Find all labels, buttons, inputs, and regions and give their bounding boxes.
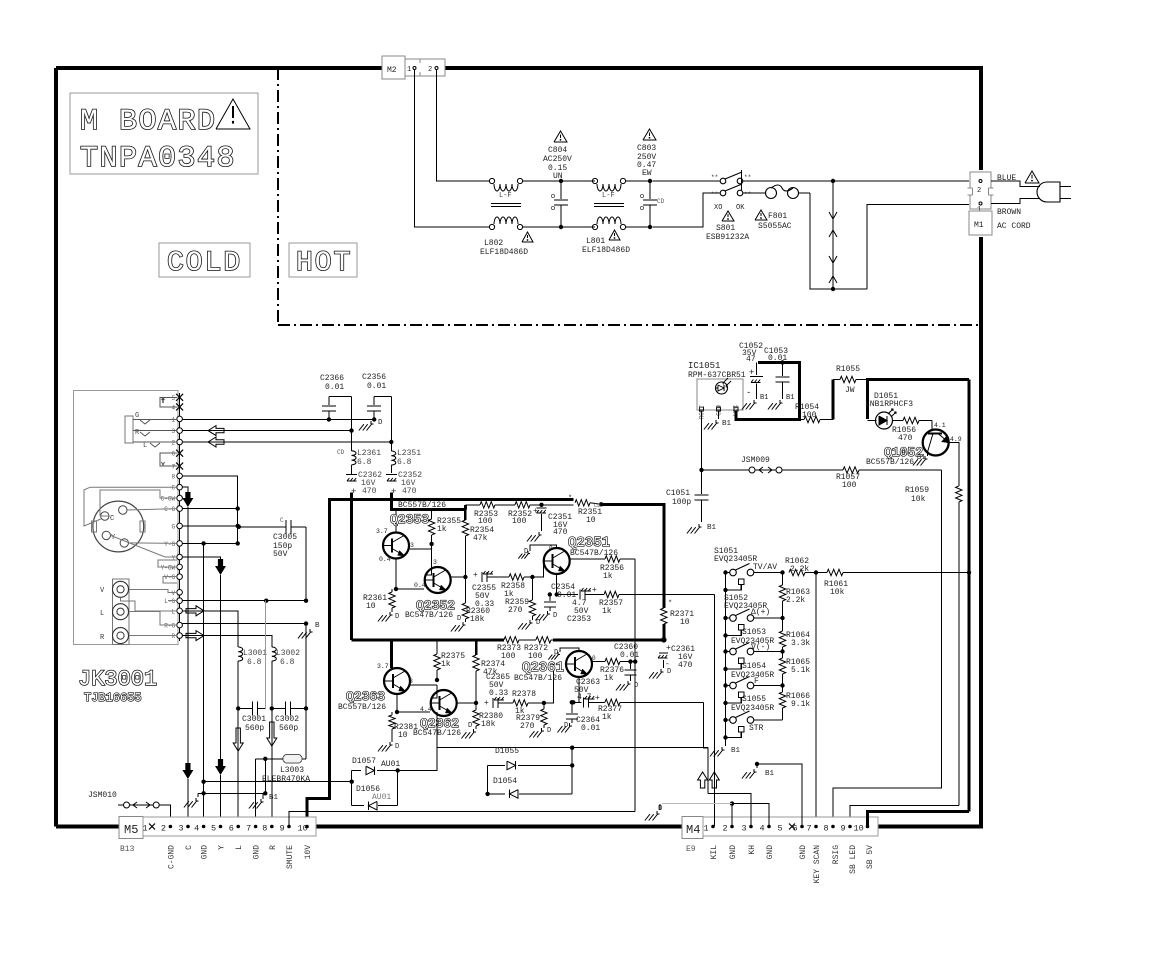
S1051 actuator — [739, 579, 745, 585]
svg-text:1: 1 — [704, 824, 709, 834]
svg-text:270: 270 — [508, 606, 523, 615]
transistor Q2362 — [431, 690, 457, 716]
resistor R1066 — [782, 686, 784, 693]
resistor R2372 — [519, 639, 536, 641]
svg-text:*: * — [568, 495, 572, 503]
svg-text:GND: GND — [201, 845, 210, 860]
key switch S1052 — [726, 617, 731, 619]
svg-text:ESB91232A: ESB91232A — [706, 233, 749, 242]
svg-text:10k: 10k — [911, 495, 926, 504]
wire C803 to switch bottom — [653, 193, 720, 227]
DIN wires — [127, 509, 177, 510]
svg-text:9: 9 — [841, 824, 846, 834]
capacitor C804 — [559, 179, 563, 183]
svg-text:470: 470 — [402, 487, 417, 496]
warning triangle AC — [1025, 171, 1039, 183]
capacitor C1053 — [780, 360, 784, 364]
svg-text:10: 10 — [366, 602, 376, 611]
switch S801 pole A — [720, 178, 726, 184]
svg-text:D: D — [468, 722, 472, 730]
svg-text:1k: 1k — [604, 674, 614, 683]
svg-text:C: C — [280, 517, 284, 524]
svg-text:B1: B1 — [765, 770, 775, 778]
svg-text:TV/AV: TV/AV — [753, 563, 777, 572]
gray gnd link — [662, 803, 732, 805]
svg-text:3.7: 3.7 — [376, 528, 388, 535]
F801 labels — [755, 210, 767, 220]
warning triangle title — [216, 99, 250, 129]
svg-text:**: ** — [744, 174, 751, 181]
svg-text:C: C — [110, 515, 114, 523]
diode D1056 — [352, 805, 364, 807]
wire M4 gnd pins — [730, 801, 734, 805]
C1052 gnd B1 — [753, 400, 755, 403]
SMUTE rail down — [634, 662, 636, 812]
cold/hot dash-dot divider horizontal — [278, 324, 981, 326]
resistor R2356 — [570, 558, 605, 560]
svg-text:3.3k: 3.3k — [791, 639, 810, 648]
svg-text:BROWN: BROWN — [997, 208, 1021, 217]
gray shield wire C3001 — [265, 601, 267, 709]
svg-text:GND: GND — [766, 845, 775, 860]
svg-text:6: 6 — [229, 824, 234, 834]
thick branch to D1051 — [866, 380, 869, 420]
svg-text:**: ** — [711, 191, 718, 198]
capacitor C2356 — [374, 396, 391, 398]
svg-text:KIL: KIL — [710, 845, 719, 860]
resistor R2379 — [543, 703, 545, 709]
svg-text:1: 1 — [143, 824, 148, 834]
wire pin8 shield bus — [182, 476, 237, 544]
svg-text:0.01: 0.01 — [325, 383, 344, 392]
svg-text:CD: CD — [657, 198, 665, 205]
transistor Q2353 — [395, 510, 397, 533]
svg-text:CD: CD — [337, 449, 345, 456]
svg-text:L: L — [100, 610, 104, 618]
svg-text:Q2353: Q2353 — [390, 512, 429, 527]
svg-text:2: 2 — [161, 824, 166, 834]
connector M2 plug shell — [405, 59, 445, 76]
wire C803 to switch top — [653, 180, 720, 182]
svg-text:100: 100 — [478, 517, 493, 526]
capacitor C803 — [648, 179, 652, 183]
connector M1 box — [969, 211, 992, 235]
diode D1055 — [487, 764, 505, 766]
transformer L801 — [592, 178, 597, 183]
svg-text:C803: C803 — [637, 144, 656, 153]
resistor R1057 — [782, 469, 843, 471]
svg-text:D: D — [457, 615, 461, 623]
resistor R2359 — [531, 577, 533, 600]
svg-text:1k: 1k — [603, 572, 613, 581]
svg-text:M2: M2 — [387, 66, 397, 75]
mute diode pair2 verticals — [486, 765, 488, 794]
C2351 ground — [538, 532, 540, 535]
resistor R1064 — [782, 618, 784, 631]
svg-text:S801: S801 — [716, 224, 735, 233]
svg-text:B1: B1 — [269, 794, 279, 802]
resistor R2380 — [475, 703, 477, 710]
wire R1059 to M4 pin9 — [850, 805, 959, 826]
svg-text:COLD: COLD — [167, 248, 242, 279]
wire E9 from R2377 — [703, 702, 708, 793]
arrow on R signal — [186, 631, 204, 641]
wire Q2351 emitter node — [556, 574, 558, 595]
svg-text:9: 9 — [280, 824, 285, 834]
svg-text:IC1051: IC1051 — [688, 361, 720, 371]
svg-text:XO: XO — [714, 204, 722, 212]
svg-text:B13: B13 — [120, 845, 135, 854]
svg-text:3.7: 3.7 — [377, 663, 389, 670]
thick stub Q2363 — [390, 640, 393, 668]
svg-text:470: 470 — [362, 487, 377, 496]
svg-text:6.8: 6.8 — [397, 458, 412, 467]
R2361 ground D — [389, 612, 391, 615]
wire R1057 to M4 pin8 — [833, 470, 942, 826]
svg-text:CD: CD — [594, 502, 601, 509]
wire G-gnd line — [182, 525, 237, 527]
svg-text:7: 7 — [807, 824, 812, 834]
wire key scan to M4 pin7 — [815, 573, 817, 827]
svg-text:BC557B/126: BC557B/126 — [338, 703, 386, 712]
svg-text:C804: C804 — [548, 146, 567, 155]
wire R signal — [182, 636, 271, 646]
svg-text:+: + — [484, 699, 489, 708]
svg-text:3: 3 — [171, 428, 175, 435]
svg-text:B: B — [315, 622, 320, 630]
svg-text:8: 8 — [824, 824, 829, 834]
svg-text:B1: B1 — [707, 524, 717, 532]
AC direction arrows — [829, 212, 837, 219]
svg-text:GND: GND — [253, 845, 262, 860]
svg-text:M1: M1 — [974, 221, 984, 230]
wire fuse down and to M1 pin1 — [810, 193, 867, 289]
svg-text:AC CORD: AC CORD — [997, 222, 1031, 231]
svg-text:GND: GND — [799, 845, 808, 860]
svg-text:EVQ23405R: EVQ23405R — [731, 704, 774, 713]
resistor R2375 — [436, 640, 438, 654]
L801 label — [609, 230, 620, 240]
wire smute link — [204, 781, 352, 783]
capacitor C2353 — [557, 594, 578, 596]
jumper JSM009 — [704, 469, 749, 471]
svg-text:R2378: R2378 — [512, 690, 536, 699]
transformer L802 — [489, 178, 494, 183]
svg-text:KH: KH — [748, 845, 757, 855]
svg-text:5.1k: 5.1k — [791, 666, 810, 675]
wire M4 pin6 gnd — [757, 764, 802, 826]
COLD box — [159, 243, 250, 277]
transistor Q1052 — [923, 430, 949, 456]
svg-text:R: R — [269, 845, 278, 850]
svg-text:C3002: C3002 — [275, 715, 299, 724]
svg-text:D1055: D1055 — [495, 747, 519, 756]
R2360 ground D — [462, 622, 464, 625]
cold/hot dash-dot divider vertical — [277, 68, 279, 325]
capacitor C2364 — [571, 702, 573, 713]
ground B1 at M4 — [756, 764, 758, 768]
svg-text:D: D — [553, 612, 557, 620]
wire L802 to C804 bottom — [523, 226, 595, 228]
resistor R2378 — [513, 700, 528, 706]
wire R2356 to SMUTE rail — [634, 559, 636, 662]
svg-text:6.8: 6.8 — [357, 458, 372, 467]
svg-text:1k: 1k — [437, 525, 447, 534]
fuse F801 — [743, 192, 766, 194]
svg-text:L802: L802 — [484, 239, 503, 248]
RCA jack L — [113, 604, 129, 620]
svg-text:Y-GW: Y-GW — [161, 564, 176, 571]
svg-text:V: V — [171, 590, 175, 597]
C803 labels — [643, 129, 656, 140]
svg-text:2: 2 — [723, 824, 728, 834]
RCA jack R — [113, 628, 129, 644]
C2364 ground D — [569, 723, 571, 726]
AC plug — [1037, 182, 1060, 202]
key bus vertical — [725, 573, 727, 747]
jack pin6-7 bracket — [160, 453, 177, 466]
thin supply line upper — [465, 504, 480, 506]
headphone jack — [125, 416, 133, 443]
svg-text:L3003: L3003 — [280, 766, 304, 775]
svg-text:EW: EW — [642, 169, 652, 178]
resistor R1062 — [789, 569, 805, 575]
resistor R2355 — [431, 510, 433, 520]
svg-text:0.01: 0.01 — [581, 724, 600, 733]
svg-text:C-GW: C-GW — [161, 496, 176, 503]
R2381 ground D — [389, 742, 391, 745]
svg-text:270: 270 — [520, 722, 535, 731]
thick rail to R2371 — [601, 504, 664, 608]
svg-text:7: 7 — [246, 824, 251, 834]
svg-text:OK: OK — [736, 204, 745, 212]
wire G line — [182, 419, 374, 421]
wire to Q2361 base — [544, 664, 554, 703]
svg-text:SB 5V: SB 5V — [866, 845, 875, 869]
svg-text:47: 47 — [746, 355, 756, 364]
wire Q2353 collector to Q2352 base — [408, 548, 432, 550]
key bus ground B1 — [721, 747, 723, 750]
title box — [70, 93, 258, 174]
RCA jack group box — [112, 579, 129, 645]
svg-text:2: 2 — [977, 187, 981, 195]
wire C-G line — [182, 508, 237, 510]
svg-text:Δ(+): Δ(+) — [751, 608, 770, 617]
resistor R2371 — [661, 608, 667, 624]
wire Q2362 out node — [474, 701, 478, 705]
svg-text:0.4: 0.4 — [379, 556, 391, 563]
svg-text:3: 3 — [433, 559, 437, 566]
svg-text:9.1k: 9.1k — [791, 700, 810, 709]
wire S801 to node — [743, 180, 969, 182]
wire C signal with arrow — [182, 487, 188, 492]
svg-text:D1054: D1054 — [493, 777, 517, 786]
HOT box — [289, 243, 357, 277]
inductor L3001 — [237, 646, 239, 647]
svg-text:560p: 560p — [279, 724, 298, 733]
wire L-G line — [182, 600, 306, 602]
svg-text:TJB16655: TJB16655 — [84, 691, 142, 705]
svg-text:+: + — [473, 571, 478, 580]
svg-text:100: 100 — [842, 481, 857, 490]
svg-text:RSIG: RSIG — [832, 845, 841, 864]
connector M5 body — [143, 817, 316, 836]
photo-IC IC1051 — [697, 379, 743, 410]
svg-text:M4: M4 — [686, 823, 700, 837]
wire B1 branch — [264, 759, 266, 794]
svg-text:C: C — [171, 485, 175, 492]
svg-text:AU01: AU01 — [381, 760, 400, 769]
Q1052 emitter gnd — [927, 452, 929, 456]
svg-text:4: 4 — [194, 824, 199, 834]
svg-text:6: 6 — [171, 451, 175, 458]
svg-text:1: 1 — [407, 66, 411, 74]
svg-text:D: D — [395, 613, 399, 621]
capacitor C3001 — [236, 706, 240, 710]
svg-text:ELF18D486D: ELF18D486D — [582, 246, 630, 255]
svg-text:AC250V: AC250V — [543, 155, 572, 164]
svg-text:**: ** — [744, 191, 751, 198]
board outer border — [56, 68, 981, 827]
key switch S1051 — [726, 572, 731, 574]
capacitor C3005 — [239, 526, 286, 528]
resistor R2361 — [391, 589, 393, 592]
wire BLUE to plug — [991, 181, 1040, 187]
thick SB5V to M4 pin10 — [868, 811, 970, 826]
arrow on L line — [208, 437, 224, 447]
inductor L2361 — [352, 451, 357, 465]
svg-text:JSM009: JSM009 — [741, 456, 770, 465]
svg-text:0: 0 — [549, 545, 553, 552]
svg-text:JW: JW — [845, 386, 855, 395]
resistor R2352 — [495, 504, 515, 506]
svg-text:D: D — [547, 727, 551, 735]
jack pin5-4 bracket — [160, 397, 177, 407]
svg-text:18k: 18k — [470, 615, 485, 624]
L802 label — [522, 232, 533, 242]
wire R to M5 pin8 — [271, 708, 273, 826]
wire R-G line — [182, 623, 306, 625]
wire Q1052 collector — [947, 443, 959, 487]
svg-text:3: 3 — [742, 824, 747, 834]
resistor R2376 — [592, 661, 605, 663]
wire KIL from R2357 — [713, 595, 715, 827]
S-video DIN connector — [93, 501, 144, 552]
arrow on L out — [233, 728, 243, 751]
resistor R2358 — [509, 574, 524, 580]
svg-text:L: L — [235, 845, 244, 850]
LED D1051 — [876, 412, 893, 429]
svg-text:Q2363: Q2363 — [346, 689, 385, 704]
M1 pin 1 — [979, 202, 982, 205]
svg-text:EVQ23405R: EVQ23405R — [731, 671, 774, 680]
svg-text:2: 2 — [171, 440, 175, 447]
wire M2 pin2 to AC top line — [437, 70, 490, 181]
svg-text:0.01: 0.01 — [768, 354, 787, 363]
svg-text:+: + — [592, 586, 597, 595]
M1 pin 2 — [979, 180, 982, 183]
wire L channel vert — [390, 397, 392, 451]
svg-text:470: 470 — [678, 661, 693, 670]
wire bead to M5 pin7 — [255, 759, 257, 826]
resistor R2357 — [604, 591, 619, 597]
ground B at R-G node — [305, 624, 307, 627]
svg-text:BLUE: BLUE — [997, 174, 1016, 183]
svg-text:10: 10 — [680, 618, 690, 627]
connector M5 label box — [119, 817, 143, 839]
IC1051 pins — [700, 407, 704, 411]
node R1062 out — [814, 570, 818, 574]
wire top diode line — [437, 747, 708, 749]
svg-text:B1: B1 — [917, 454, 925, 462]
inductor L3002 — [271, 646, 273, 647]
wire Q2353 emitter — [395, 559, 397, 590]
thick standby 5V rail right — [866, 378, 969, 381]
svg-text:KEY SCAN: KEY SCAN — [813, 845, 822, 884]
transistor Q2351 — [544, 548, 570, 574]
wire R line — [182, 430, 351, 432]
ground D at C2356 — [373, 420, 375, 422]
C2361 ground D — [660, 669, 662, 672]
svg-text:BC547B/126: BC547B/126 — [405, 611, 453, 620]
svg-text:6: 6 — [793, 824, 798, 834]
connector M1 shell — [970, 172, 991, 209]
svg-text:C-GND: C-GND — [167, 845, 176, 869]
svg-text:0.33: 0.33 — [475, 600, 494, 609]
svg-text:B1: B1 — [760, 394, 768, 402]
svg-text:Y-G: Y-G — [164, 541, 175, 548]
wire L signal — [182, 611, 238, 646]
IC1051 gnd B1 — [718, 411, 720, 419]
R2379 ground D — [541, 728, 543, 731]
wire Y signal with arrow — [182, 557, 220, 559]
svg-text:5: 5 — [211, 824, 216, 834]
capacitor C2352 — [386, 474, 397, 476]
arrow on KIL line — [709, 772, 719, 788]
svg-text:L-G: L-G — [164, 598, 175, 605]
svg-text:100: 100 — [512, 517, 527, 526]
wire AC node down — [832, 183, 834, 287]
svg-text:100p: 100p — [672, 498, 691, 507]
resistor R1056 — [903, 417, 919, 423]
svg-text:B1: B1 — [731, 747, 741, 755]
svg-text:2: 2 — [428, 66, 432, 74]
arrow on L signal — [186, 606, 204, 616]
wire L to M5 pin6 — [237, 708, 239, 826]
svg-text:1k: 1k — [602, 607, 612, 616]
inductor L2351 — [391, 451, 396, 465]
resistor R2381 — [391, 712, 393, 715]
resistor R1065 — [782, 652, 784, 659]
wire gnd bus to bead — [305, 708, 307, 758]
wire GND line from Y-G to M5 pin4 — [203, 543, 205, 826]
svg-text:G: G — [135, 412, 139, 420]
svg-text:E9: E9 — [686, 845, 696, 854]
svg-text:S5055AC: S5055AC — [758, 222, 792, 231]
svg-text:GND: GND — [729, 845, 738, 860]
wire gnd bus down — [305, 624, 307, 709]
svg-text:JK3001: JK3001 — [78, 667, 157, 692]
svg-text:M5: M5 — [124, 823, 138, 837]
C1051 ground B1 — [698, 524, 700, 527]
mute diode pair verticals — [351, 771, 353, 806]
wire KH link — [708, 794, 751, 826]
svg-text:C3001: C3001 — [242, 715, 266, 724]
wire to Q2351 base — [532, 561, 543, 577]
resistor R2354 — [464, 510, 467, 521]
svg-text:8: 8 — [262, 824, 267, 834]
wire Q2363 emitter — [396, 694, 398, 712]
